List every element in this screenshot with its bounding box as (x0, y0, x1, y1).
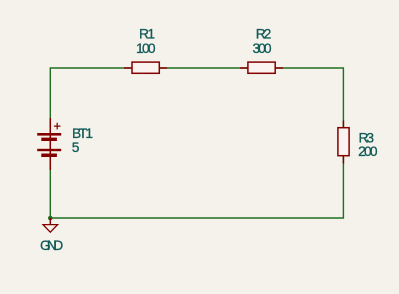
svg-text:200: 200 (358, 144, 378, 159)
svg-text:2: 2 (264, 27, 272, 42)
svg-text:300: 300 (253, 41, 272, 56)
svg-text:5: 5 (72, 140, 80, 155)
svg-text:100: 100 (136, 41, 156, 56)
svg-text:1: 1 (147, 27, 155, 42)
svg-text:D: D (53, 238, 63, 253)
svg-text:1: 1 (85, 126, 93, 141)
